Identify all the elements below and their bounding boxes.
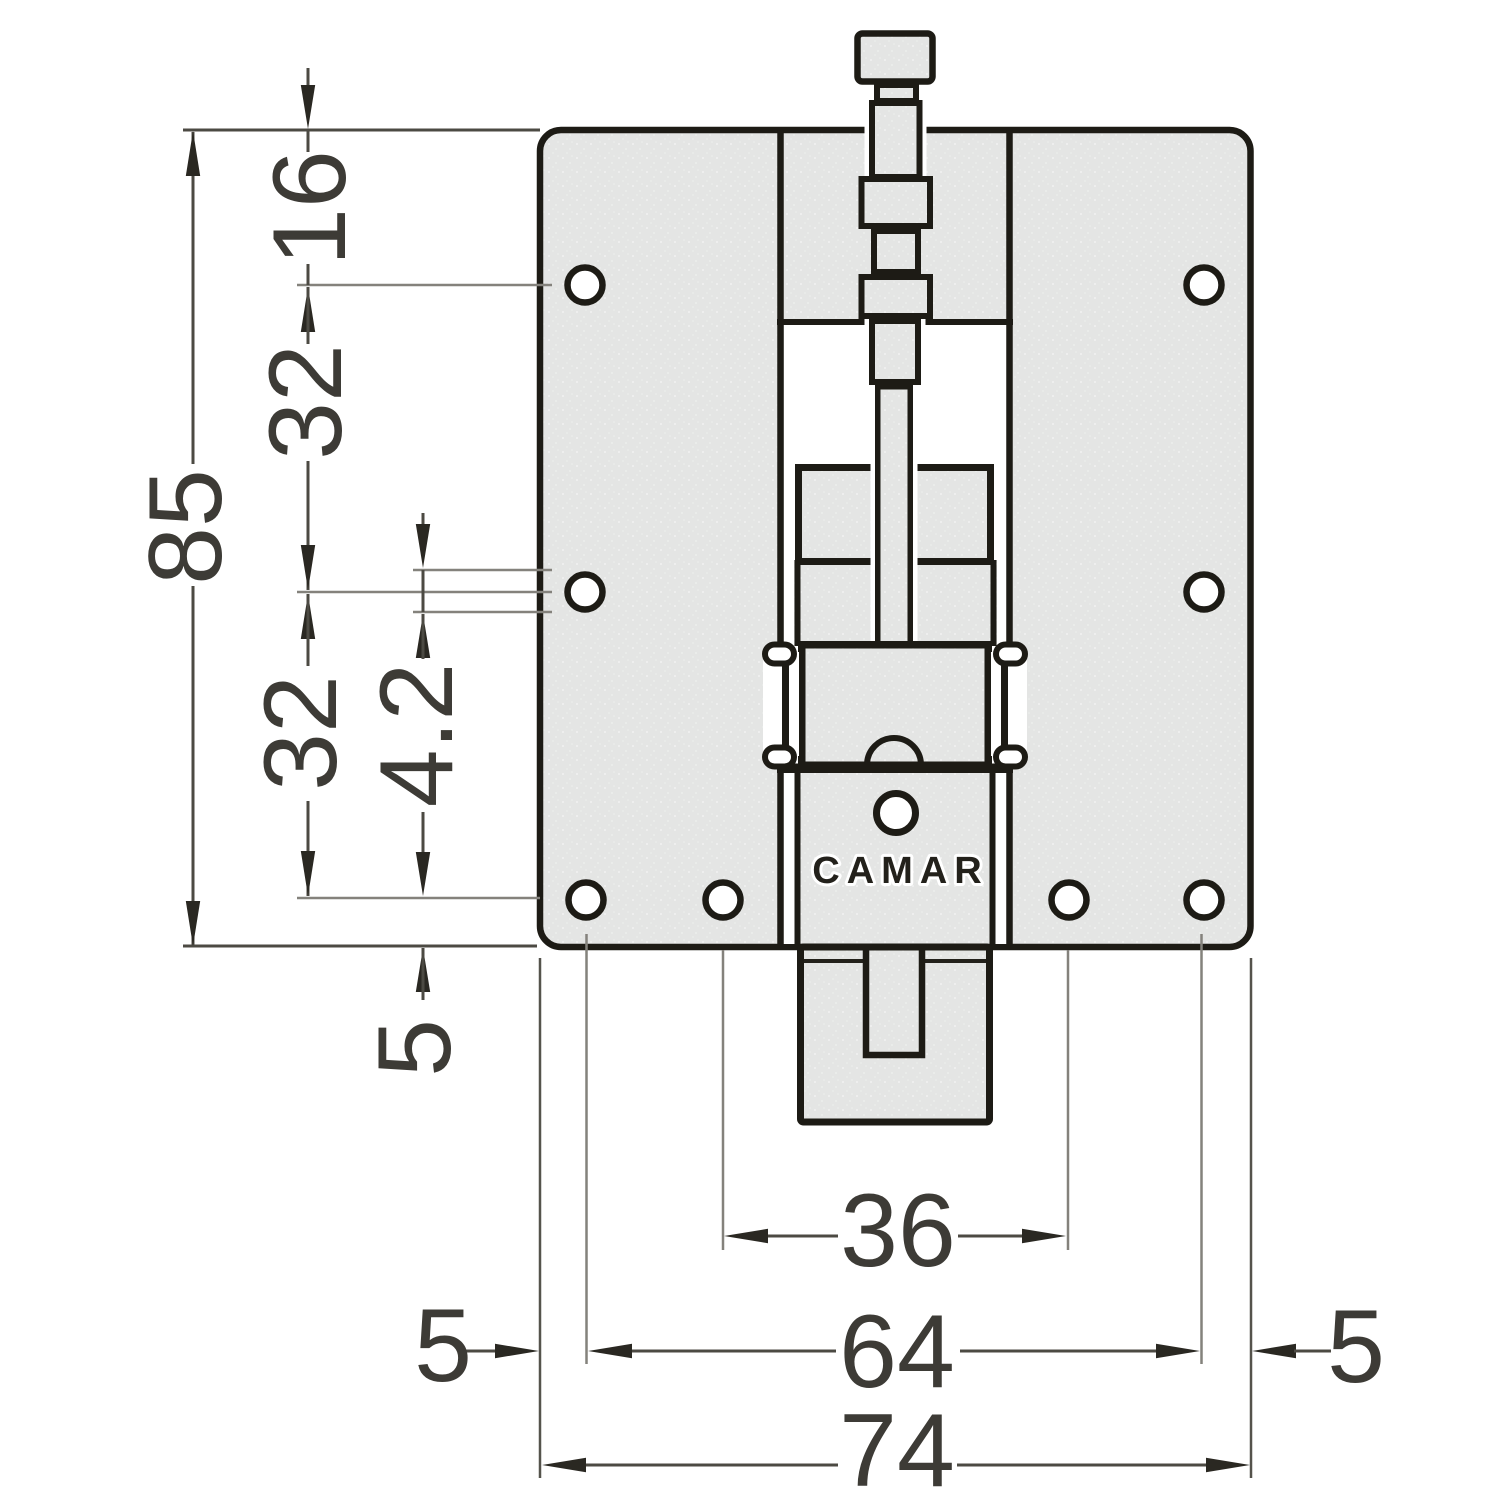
channel left wall <box>777 130 784 944</box>
dim 5 bottom-right <box>1252 1344 1296 1358</box>
svg-text:74: 74 <box>839 1393 955 1500</box>
slider lower box <box>802 645 989 766</box>
svg-text:36: 36 <box>840 1173 956 1289</box>
screw shaft <box>878 387 911 646</box>
dim 36 <box>724 1229 768 1243</box>
screw shaft halo <box>871 388 918 646</box>
dim 5 bottom-left-side line <box>416 948 430 992</box>
ext line bottom hole 2 <box>722 950 725 1250</box>
hole bottom-2 <box>706 883 741 918</box>
center line hole row 2 <box>297 591 552 594</box>
pin ear bottom-right <box>996 748 1025 767</box>
ext line bottom hole 1 <box>585 934 588 1364</box>
extension step line left <box>804 959 866 963</box>
svg-text:5: 5 <box>414 1288 472 1404</box>
svg-text:85: 85 <box>128 469 244 585</box>
channel right wall <box>1006 130 1013 944</box>
CAMAR logo <box>814 856 981 883</box>
screw collar E <box>862 277 931 316</box>
svg-text:4.2: 4.2 <box>359 663 475 808</box>
dim 64 <box>588 1344 632 1358</box>
channel upper section bottom edge <box>777 319 1013 325</box>
pin ear bottom-left <box>765 748 794 767</box>
hole top-left <box>568 268 603 303</box>
dim 85 line <box>192 132 195 464</box>
pin slot right <box>991 652 1027 756</box>
dim 5 bottom-left <box>462 1350 497 1353</box>
channel white slot <box>784 322 1008 944</box>
slider body left edge <box>795 772 801 944</box>
mounting plate <box>540 130 1251 947</box>
pin shaft left <box>782 650 789 758</box>
slider window circle <box>877 794 916 833</box>
slider body right edge <box>990 772 996 944</box>
svg-text:5: 5 <box>357 1019 473 1077</box>
ext line bottom left corner <box>539 958 542 1478</box>
cam arc <box>867 738 921 765</box>
center line hole row 1 <box>297 284 552 287</box>
slot edge line upper <box>413 569 552 572</box>
svg-text:5: 5 <box>1327 1289 1385 1405</box>
bottom extension block <box>801 947 990 1122</box>
svg-text:16: 16 <box>252 150 368 266</box>
extension U notch <box>866 949 922 1055</box>
dim 4.2 line <box>422 513 425 528</box>
dim 32 upper line <box>301 287 315 332</box>
center line hole row 3 <box>297 897 540 900</box>
slider mid block <box>794 560 997 646</box>
dim 16 line <box>307 68 310 90</box>
ext line bottom right corner <box>1250 958 1253 1478</box>
svg-text:32: 32 <box>243 675 359 791</box>
extension step line right <box>924 959 986 963</box>
svg-text:32: 32 <box>248 344 364 460</box>
hole bottom-4 <box>1187 883 1222 918</box>
dim 74 <box>542 1458 586 1472</box>
pin ear top-right <box>996 645 1025 664</box>
screw neck <box>877 85 916 101</box>
pin slot left <box>763 652 799 756</box>
screw collar C <box>862 179 931 226</box>
slider upper box <box>799 468 991 562</box>
ext line bottom hole 3 <box>1067 950 1070 1250</box>
ext line plate bottom <box>183 945 537 948</box>
ext line plate top <box>183 129 540 132</box>
slot edge line lower <box>413 611 552 614</box>
screw segment B <box>872 103 920 177</box>
hole bottom-1 <box>569 883 604 918</box>
screw segment D <box>874 231 918 272</box>
hole bottom-3 <box>1052 883 1087 918</box>
screw segment B halo <box>865 100 927 177</box>
screw segment F halo <box>865 319 926 385</box>
dim 32 lower line <box>301 594 315 639</box>
screw segment F <box>872 321 918 382</box>
screw head <box>858 34 933 82</box>
ext line bottom hole 4 <box>1200 934 1203 1364</box>
hole mid-right <box>1187 575 1222 610</box>
slider top edge band <box>777 764 1013 774</box>
pin shaft right <box>1001 650 1008 758</box>
pin ear top-left <box>765 645 794 664</box>
hole top-right <box>1187 268 1222 303</box>
hole mid-left <box>568 575 603 610</box>
